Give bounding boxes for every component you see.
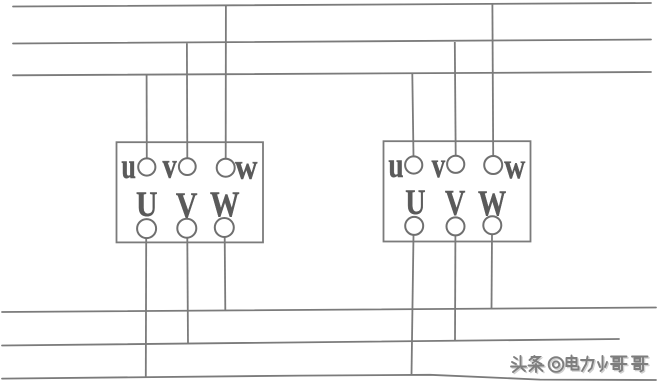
svg-text:W: W — [210, 184, 240, 224]
svg-text:v: v — [163, 145, 177, 185]
svg-text:u: u — [121, 146, 136, 186]
svg-text:U: U — [136, 184, 158, 224]
svg-text:U: U — [405, 182, 425, 222]
svg-text:v: v — [432, 145, 446, 185]
svg-text:V: V — [176, 185, 198, 225]
svg-text:V: V — [445, 183, 465, 223]
svg-text:w: w — [504, 146, 525, 186]
svg-text:w: w — [235, 147, 258, 187]
svg-text:u: u — [388, 145, 403, 185]
svg-text:W: W — [478, 183, 506, 223]
